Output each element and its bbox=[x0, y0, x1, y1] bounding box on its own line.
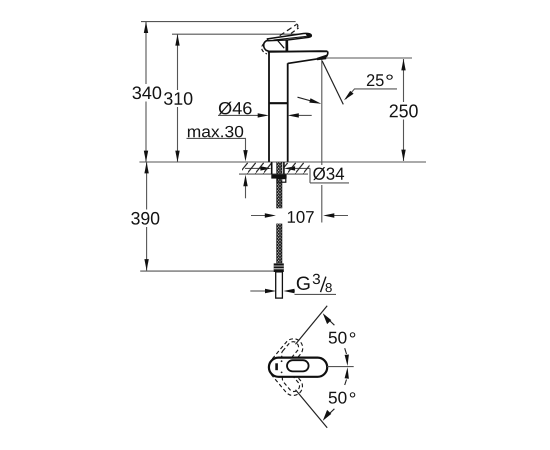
dimension max30 lower arrow bbox=[245, 186, 247, 198]
lever hub bbox=[264, 39, 288, 51]
dimension 107 right arrow bbox=[330, 215, 348, 217]
extension line 310 level bbox=[172, 33, 310, 35]
extension line hose end bbox=[140, 270, 275, 272]
hose adapter below nut bbox=[277, 179, 286, 183]
50deg upper arc arrow at line bbox=[329, 320, 335, 326]
label max.30 underlined bbox=[188, 126, 243, 138]
raised hub dashed arc bbox=[262, 44, 267, 54]
top view solid lever pill bbox=[269, 358, 327, 377]
hose end fitting bbox=[274, 263, 284, 272]
label 50 degrees bottom bbox=[329, 392, 347, 404]
top view centerline bbox=[327, 366, 354, 368]
label 310 bbox=[164, 92, 192, 105]
dimension diameter46 right arrow bbox=[294, 114, 312, 116]
spout top edge bbox=[268, 50, 328, 53]
lever hub inner diagonal bbox=[277, 40, 284, 49]
leader arrow to vertical line bbox=[298, 97, 314, 101]
deck hatch right bbox=[284, 163, 309, 174]
shank right wall bbox=[283, 162, 285, 174]
braided hose lower section bbox=[277, 224, 282, 264]
connection tube bbox=[276, 272, 283, 298]
top view hidden dots bbox=[281, 360, 283, 362]
extension line top (340 level) bbox=[141, 21, 296, 23]
label 250 bbox=[390, 104, 418, 117]
top view 50deg lower line bbox=[296, 390, 328, 428]
top view dashed lever rotated down bbox=[266, 356, 306, 399]
faucet column right edge bbox=[287, 63, 289, 162]
dimension max30 upper arrow bbox=[245, 138, 247, 152]
mounting nut bbox=[271, 174, 286, 178]
top view dashed lever rotated up bbox=[266, 335, 306, 378]
dimension diameter34 left arrow bbox=[245, 167, 263, 169]
dimension diameter46 left arrow bbox=[218, 114, 261, 116]
label 50 degrees top bbox=[329, 332, 347, 344]
braided hose in shank bbox=[277, 162, 282, 174]
dimension G38 left arrow bbox=[250, 290, 266, 292]
raised lever dashed tip bbox=[296, 24, 298, 28]
dimension line 250 bbox=[403, 59, 405, 161]
50deg lower arrow at centerline bbox=[345, 380, 347, 386]
50deg lower arc arrow at line bbox=[329, 409, 335, 415]
lever hub inner right edge bbox=[285, 40, 288, 51]
label diameter 34 underlined bbox=[313, 167, 344, 180]
spout underside bbox=[288, 59, 318, 64]
lever blade inner edge bbox=[274, 36, 308, 40]
braid edges bbox=[277, 162, 282, 263]
braided hose upper section bbox=[277, 179, 282, 209]
dimension 107 left arrow bbox=[251, 215, 268, 217]
top view cartridge tick bbox=[275, 363, 278, 370]
label 390 bbox=[131, 212, 159, 225]
spout outlet aerator bbox=[317, 55, 327, 61]
column joint line bbox=[269, 102, 288, 104]
label 107 bbox=[288, 211, 314, 223]
extension line spout top right bbox=[326, 57, 412, 59]
deck bottom line bbox=[239, 173, 308, 175]
raised lever dashed upper line bbox=[279, 28, 299, 43]
top view inner oval bbox=[287, 360, 309, 371]
dimension line 390 bbox=[146, 162, 148, 271]
label diameter 46 bbox=[219, 102, 252, 115]
label 340 bbox=[133, 86, 162, 99]
deck top line bbox=[139, 161, 426, 163]
top view 50deg upper line bbox=[296, 306, 328, 344]
dimension G38 right arrow bbox=[292, 290, 295, 292]
spray angle line 25deg bbox=[322, 61, 343, 104]
leader 25 degrees shelf bbox=[346, 89, 397, 99]
label G38 underline bbox=[295, 293, 337, 295]
extension line spout outlet vertical bbox=[321, 59, 323, 223]
shank left wall bbox=[271, 162, 273, 174]
label 25 degrees bbox=[367, 74, 384, 86]
label G38 slash bbox=[321, 277, 326, 293]
label G 3/8 bbox=[297, 277, 310, 290]
deck hatch left bbox=[242, 163, 271, 174]
raised lever dashed lower line bbox=[273, 25, 297, 41]
spout tip bbox=[326, 51, 328, 57]
dimension line 340 bbox=[145, 22, 147, 162]
50deg upper arrow at centerline bbox=[345, 348, 347, 354]
dimension diameter34 right arrow bbox=[292, 167, 310, 169]
dimension line 310 bbox=[177, 34, 179, 162]
faucet column left edge bbox=[268, 51, 270, 161]
lever blade bbox=[268, 33, 312, 40]
